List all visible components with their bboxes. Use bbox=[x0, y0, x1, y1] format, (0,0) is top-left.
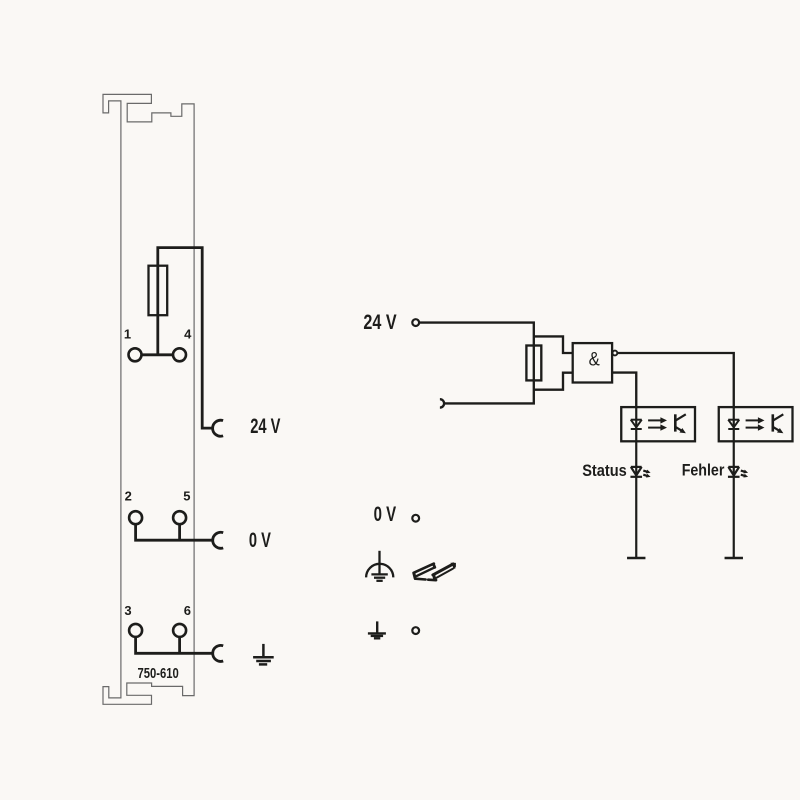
ground bar Fehler bbox=[725, 557, 743, 560]
svg-text:0 V: 0 V bbox=[249, 528, 272, 552]
emission arrow heads (Fehler LED) bbox=[743, 470, 748, 474]
wire terminal 2 stub bbox=[136, 524, 213, 540]
light arrows bbox=[648, 419, 661, 421]
emitter arrow head bbox=[777, 428, 783, 433]
wire fuse branch to 24V tap bbox=[158, 248, 213, 429]
node 0V terminal bbox=[412, 515, 419, 522]
plug contact hook (0V return) bbox=[440, 399, 444, 407]
left flange end face bbox=[434, 564, 435, 567]
optocoupler OK1 (Status) bbox=[621, 407, 695, 558]
contact hook 0V bbox=[213, 532, 223, 548]
svg-text:5: 5 bbox=[183, 489, 190, 504]
functional earth symbol bbox=[368, 621, 386, 638]
right flange top edge bbox=[433, 564, 453, 575]
contact hook earth bbox=[213, 645, 223, 661]
wire terminal 5 stub bbox=[178, 524, 181, 540]
DIN rail icon bbox=[414, 564, 454, 581]
LED Fehler indicator bbox=[728, 467, 746, 477]
inverter bubble bbox=[613, 351, 618, 356]
far end cap bbox=[451, 563, 456, 567]
LED Status indicator bbox=[630, 467, 648, 477]
node earth terminal bbox=[412, 627, 419, 634]
module outline 750-610 housing bbox=[103, 94, 194, 704]
svg-text:1: 1 bbox=[124, 327, 131, 342]
svg-text:24 V: 24 V bbox=[250, 414, 281, 438]
terminal contact 2 bbox=[129, 511, 142, 524]
emitter arrow head bbox=[680, 428, 686, 433]
near end cap left bbox=[414, 573, 415, 578]
svg-text:0 V: 0 V bbox=[374, 502, 397, 526]
terminal contact 1 bbox=[129, 348, 142, 361]
wire terminal 3 stub bbox=[136, 637, 213, 654]
gate U1 AND box bbox=[573, 343, 612, 382]
left flange top edge bbox=[414, 564, 434, 573]
terminal contact 5 bbox=[173, 511, 186, 524]
ground module earth symbol bbox=[253, 644, 274, 665]
near wall jog bbox=[432, 575, 436, 579]
opto phototransistor bbox=[773, 414, 784, 431]
wire gate to Status branch bbox=[612, 373, 636, 407]
svg-text:Fehler: Fehler bbox=[682, 460, 725, 479]
contact hook 24V bbox=[213, 420, 223, 436]
far end step bbox=[453, 566, 456, 569]
emission arrow heads (Status LED) bbox=[646, 470, 651, 474]
svg-text:2: 2 bbox=[125, 489, 132, 504]
ground bar Status bbox=[627, 557, 645, 560]
terminal contact 6 bbox=[173, 624, 186, 637]
fuse F1 (schematic) bbox=[526, 346, 541, 381]
terminal contact 3 bbox=[129, 624, 142, 637]
svg-text:750-610: 750-610 bbox=[138, 665, 179, 682]
svg-text:3: 3 bbox=[124, 603, 131, 618]
right rail lower edge bbox=[435, 569, 454, 579]
wire fuse to gate bottom bbox=[534, 373, 573, 390]
wire gate output to Fehler branch bbox=[618, 353, 734, 407]
earth with shield arc bbox=[366, 551, 393, 581]
svg-text:4: 4 bbox=[184, 327, 192, 342]
light arrow heads bbox=[758, 417, 765, 423]
wire fuse to gate top bbox=[534, 336, 573, 353]
wire through Status branch bbox=[635, 407, 637, 558]
terminal contact 4 bbox=[173, 348, 186, 361]
wire terminal 6 stub bbox=[178, 637, 181, 654]
optocoupler OK2 (Fehler) bbox=[719, 407, 793, 558]
bottom foot right bbox=[428, 578, 436, 581]
wire terminal 1-4 bbox=[142, 353, 172, 356]
fuse F (module) bbox=[149, 266, 168, 316]
light arrow heads bbox=[660, 417, 667, 423]
opto LED bbox=[728, 419, 739, 421]
svg-text:Status: Status bbox=[582, 461, 627, 480]
bottom foot left bbox=[415, 577, 425, 580]
opto phototransistor bbox=[675, 414, 686, 431]
svg-text:&: & bbox=[589, 349, 600, 371]
node 24V terminal bbox=[412, 319, 419, 326]
opto LED bbox=[631, 419, 642, 421]
svg-text:24 V: 24 V bbox=[363, 310, 397, 334]
svg-text:6: 6 bbox=[184, 603, 191, 618]
left channel wall edge bbox=[417, 567, 435, 576]
wire 24V feed bbox=[420, 323, 534, 404]
wire through Fehler branch bbox=[733, 407, 735, 558]
light arrows bbox=[746, 419, 759, 421]
